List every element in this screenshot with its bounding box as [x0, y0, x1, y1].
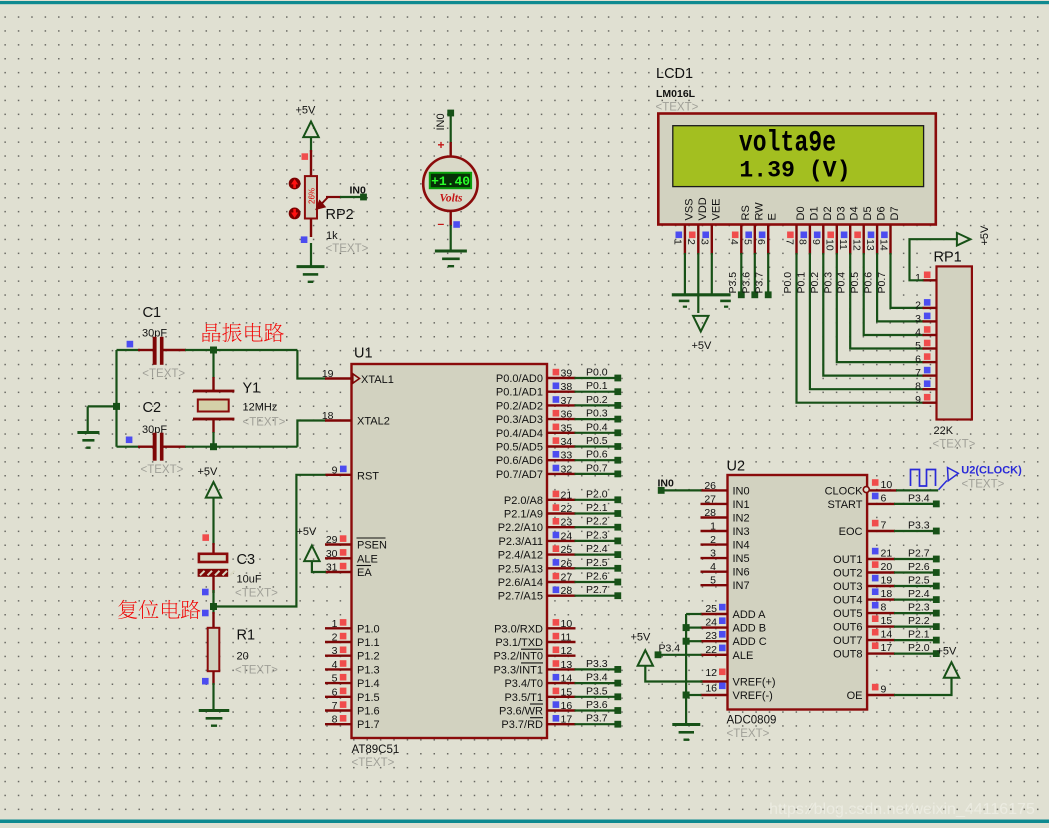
svg-text:P3.5/T1: P3.5/T1: [504, 692, 543, 704]
U2 pin 8 stub: [867, 612, 895, 614]
terminal net P3.4: [933, 501, 940, 508]
svg-text:Y1: Y1: [243, 381, 261, 397]
pin C1 left: [138, 349, 154, 351]
svg-text:20: 20: [881, 561, 893, 573]
U1 pin 28 state square: [553, 587, 560, 594]
RP1 pin 9 state square: [924, 394, 931, 401]
U1 pin EA overline: [357, 565, 372, 567]
U1 pin 29 stub: [325, 543, 352, 545]
svg-text:26%: 26%: [308, 188, 317, 204]
pin C3 top: [212, 543, 214, 554]
U2 pin 7 stub: [867, 530, 895, 532]
svg-text:volta9e: volta9e: [739, 126, 836, 159]
wire OUT1 net: [894, 558, 933, 560]
U1 pin 2 state square: [340, 633, 347, 640]
svg-text:19: 19: [881, 575, 893, 587]
junction ADD B: [683, 624, 690, 631]
U1 pin 4 state square: [340, 660, 347, 667]
svg-text:ALE: ALE: [733, 650, 754, 662]
U1 pin 26 stub: [547, 567, 576, 569]
svg-text:P3.1/TXD: P3.1/TXD: [495, 637, 543, 649]
voltmeter body: [423, 157, 477, 211]
svg-text:P2.3: P2.3: [586, 529, 608, 541]
wire +5V to C3: [212, 498, 214, 546]
IC U1 AT89C51 body: [352, 364, 548, 738]
U2 pin 23 stub: [701, 640, 728, 642]
svg-text:P0.0/AD0: P0.0/AD0: [496, 373, 543, 385]
svg-text:15: 15: [561, 686, 573, 698]
svg-text:P1.6: P1.6: [357, 706, 380, 718]
svg-text:36: 36: [561, 409, 573, 421]
svg-text:P3.5: P3.5: [586, 685, 608, 697]
wire OUT7 net: [894, 639, 933, 641]
svg-text:7: 7: [783, 239, 795, 245]
terminal net P3.5: [614, 693, 621, 700]
wire net P3.7: [575, 723, 618, 725]
svg-text:1: 1: [915, 272, 921, 284]
svg-text:25: 25: [561, 544, 573, 556]
wire OUT6 net: [894, 625, 933, 627]
U2 pin 14 state square: [872, 629, 879, 636]
U2 pin 25 state square: [719, 604, 726, 611]
svg-text:6: 6: [915, 354, 921, 366]
resistor R1 body: [208, 628, 220, 671]
LCD1 pin 12 stub: [863, 225, 865, 255]
svg-text:10: 10: [561, 618, 573, 630]
svg-text:<TEXT>: <TEXT>: [326, 243, 369, 255]
svg-text:38: 38: [561, 381, 573, 393]
U1 pin 11 stub: [547, 641, 576, 643]
U1 pin 33 state square: [553, 451, 560, 458]
U2 pin 19 stub: [867, 585, 895, 587]
U1 pin 23 stub: [547, 526, 576, 528]
U1 pin 1 stub: [325, 627, 352, 629]
svg-text:35: 35: [561, 422, 573, 434]
svg-text:16: 16: [561, 700, 573, 712]
svg-text:P2.0/A8: P2.0/A8: [504, 495, 543, 507]
U2 CLOCK bubble: [863, 487, 869, 493]
terminal IN0 at voltmeter: [447, 110, 454, 117]
RP1 pin 6 stub: [923, 361, 937, 363]
svg-text:3: 3: [915, 313, 921, 325]
terminal net P2.1: [614, 510, 621, 517]
wire +5V to RP2: [310, 137, 312, 152]
svg-text:<TEXT>: <TEXT>: [141, 464, 184, 476]
terminal net P2.0: [933, 650, 940, 657]
svg-text:P0.1/AD1: P0.1/AD1: [496, 387, 543, 399]
terminal net P2.2: [614, 524, 621, 531]
U1 pin 16 stub: [547, 709, 576, 711]
wire net P0.1: [575, 391, 618, 393]
terminal net P0.5: [614, 443, 621, 450]
svg-text:D5: D5: [862, 206, 874, 220]
U1 pin 24 stub: [547, 540, 576, 542]
annotation crystal circuit (red): [202, 323, 283, 342]
svg-text:15: 15: [881, 615, 893, 627]
svg-text:1k: 1k: [326, 230, 338, 242]
wire D3 to RP1: [837, 253, 924, 362]
svg-text:<TEXT>: <TEXT>: [933, 439, 976, 451]
U1 pin 17 state square: [553, 715, 560, 722]
U2 pin 8 state square: [872, 602, 879, 609]
wire +5V to EA: [312, 561, 326, 572]
wire C3 to junction: [212, 590, 214, 607]
svg-text:OUT6: OUT6: [833, 622, 862, 634]
U1 pin 27 state square: [553, 573, 560, 580]
svg-text:P2.6: P2.6: [908, 561, 930, 573]
LCD1 pin 13 stub: [876, 225, 878, 255]
svg-text:ADC0809: ADC0809: [727, 715, 777, 727]
U1 pin 33 stub: [547, 459, 576, 461]
svg-text:4: 4: [728, 239, 740, 245]
svg-text:OUT4: OUT4: [833, 595, 862, 607]
U1 pin 11 state square: [553, 633, 560, 640]
LCD1 pin 4 state square: [732, 232, 739, 239]
wire P3.7 net: [767, 253, 769, 295]
wire C2 to XTAL2 branch: [185, 446, 297, 448]
svg-text:RP2: RP2: [326, 207, 354, 223]
U1 pin 32 stub: [547, 473, 576, 475]
svg-text:P3.3/INT1: P3.3/INT1: [493, 664, 543, 676]
U1 pin 5 stub: [325, 682, 352, 684]
U2 pin 26 stub: [701, 489, 728, 491]
U1 pin 6 state square: [340, 688, 347, 695]
svg-text:4: 4: [332, 659, 338, 671]
wire net P2.6: [575, 581, 618, 583]
wire net P2.1: [575, 512, 618, 514]
svg-text:<TEXT>: <TEXT>: [352, 757, 395, 769]
svg-text:P3.4: P3.4: [908, 492, 930, 504]
svg-text:3: 3: [710, 548, 716, 560]
capacitor C1 plates: [153, 337, 164, 365]
svg-text:VSS: VSS: [683, 198, 695, 220]
svg-text:E: E: [767, 213, 779, 220]
wire net P2.0: [575, 499, 618, 501]
LCD1 pin 6 stub: [767, 225, 769, 255]
wire to XTAL1: [297, 350, 326, 379]
RP1 pin 3 stub: [923, 320, 937, 322]
LCD1 pin 3 state square: [702, 232, 709, 239]
U2 pin 17 stub: [867, 652, 895, 654]
annotation reset circuit (red): [118, 600, 200, 619]
svg-text:11: 11: [837, 239, 849, 250]
pin C3 bottom: [212, 577, 214, 594]
wire D7 to RP1: [891, 253, 924, 308]
U1 pin 14 stub: [547, 682, 576, 684]
RP1 pin 2 stub: [923, 307, 937, 309]
LCD1 pin 1 state square: [676, 232, 683, 239]
wire net P2.4: [575, 553, 618, 555]
crystal Y1 top lead: [212, 350, 214, 391]
wire net P3.4: [575, 682, 618, 684]
generator U2(CLOCK) waveform: [911, 470, 936, 487]
U2 pin 5 stub: [701, 584, 728, 586]
svg-text:LCD1: LCD1: [656, 66, 693, 82]
terminal net P2.4: [614, 551, 621, 558]
LCD1 pin 11 state square: [841, 232, 848, 239]
U2 pin 21 state square: [872, 548, 879, 555]
svg-text:IN0: IN0: [350, 185, 367, 197]
svg-text:21: 21: [561, 489, 573, 501]
wire net P2.3: [575, 540, 618, 542]
svg-text:U2(CLOCK): U2(CLOCK): [961, 465, 1022, 477]
svg-text:P0.2: P0.2: [809, 272, 821, 294]
pin voltmeter +: [450, 142, 452, 157]
U1 pin 26 state square: [553, 559, 560, 566]
U2 pin 7 state square: [872, 520, 879, 527]
U2 pin 18 stub: [867, 598, 895, 600]
power +5V arrow C3: [206, 482, 221, 498]
svg-text:XTAL1: XTAL1: [361, 374, 394, 386]
svg-text:D7: D7: [889, 206, 901, 220]
wire VSS to ground: [684, 253, 686, 295]
svg-text:2: 2: [915, 299, 921, 311]
ground dash right: [720, 300, 731, 303]
svg-text:ALE: ALE: [357, 553, 378, 565]
U2 pin 16 state square: [719, 683, 726, 690]
RP1 pin 4 state square: [924, 326, 931, 333]
svg-text:1: 1: [332, 618, 338, 630]
capacitor C2 plates: [153, 433, 164, 461]
RP2 decrement button: [289, 208, 301, 220]
U1 pin 5 state square: [340, 674, 347, 681]
U1 pin 14 state square: [553, 674, 560, 681]
LCD1 pin 9 state square: [814, 232, 821, 239]
svg-text:IN4: IN4: [733, 540, 750, 552]
svg-text:ADD B: ADD B: [733, 623, 767, 635]
svg-text:IN0: IN0: [733, 485, 750, 497]
U1 P3.3/INT1 overline: [521, 662, 543, 664]
U1 XTAL1 clock arrow: [353, 374, 360, 383]
U1 pin 17 stub: [547, 723, 576, 725]
svg-text:5: 5: [710, 575, 716, 587]
svg-text:P0.4/AD4: P0.4/AD4: [496, 428, 543, 440]
U1 pin 36 stub: [547, 418, 576, 420]
wire OE to +5V: [894, 678, 952, 695]
svg-text:EA: EA: [357, 567, 372, 579]
svg-text:P2.2: P2.2: [908, 615, 930, 627]
crystal Y1 top electrode: [193, 390, 234, 393]
wire net P0.2: [575, 404, 618, 406]
svg-text:7: 7: [332, 700, 338, 712]
svg-text:4: 4: [915, 327, 921, 339]
wire to XTAL2: [297, 421, 326, 447]
svg-text:P2.3/A11: P2.3/A11: [499, 536, 543, 548]
U2 pin 25 stub: [701, 613, 728, 615]
generator U2(CLOCK) flag: [939, 468, 959, 490]
U2 pin 23 state square: [719, 631, 726, 638]
U1 pin 25 state square: [553, 545, 560, 552]
svg-text:P1.1: P1.1: [357, 637, 380, 649]
U2 pin 3 stub: [701, 557, 728, 559]
svg-text:RW: RW: [753, 202, 765, 221]
wire left bus vertical: [115, 350, 117, 447]
svg-text:31: 31: [326, 562, 338, 574]
svg-text:23: 23: [561, 517, 573, 529]
svg-text:R1: R1: [237, 628, 256, 644]
wire junction to R1: [212, 607, 214, 615]
terminal net P3.4: [614, 680, 621, 687]
LCD1 pin 10 stub: [836, 225, 838, 255]
wire OUT2 net: [894, 571, 933, 573]
U1 pin 22 state square: [553, 504, 560, 511]
terminal net P2.3: [933, 610, 940, 617]
svg-text:Volts: Volts: [439, 193, 463, 205]
svg-text:P2.2/A10: P2.2/A10: [498, 522, 543, 534]
wire ADD B: [686, 626, 701, 628]
svg-text:P0.0: P0.0: [782, 272, 794, 294]
U2 pin 20 stub: [867, 571, 895, 573]
svg-text:2: 2: [332, 632, 338, 644]
IC U2 ADC0809 body: [728, 475, 868, 710]
svg-text:22K: 22K: [934, 425, 954, 437]
U2 pin 6 state square: [872, 493, 879, 500]
U1 pin 22 stub: [547, 512, 576, 514]
U2 pin 22 state square: [719, 645, 726, 652]
svg-text:P0.7: P0.7: [876, 272, 888, 294]
svg-text:24: 24: [561, 530, 573, 542]
wire VDD down: [697, 253, 699, 313]
resistor RP2 body: [305, 176, 317, 218]
svg-text:IN6: IN6: [733, 567, 750, 579]
svg-text:P0.3/AD3: P0.3/AD3: [496, 414, 543, 426]
U2 pin 27 stub: [701, 503, 728, 505]
U2 pin 4 stub: [701, 571, 728, 573]
svg-text:RS: RS: [740, 205, 752, 220]
U1 pin 7 state square: [340, 701, 347, 708]
LCD1 pin 6 state square: [759, 232, 766, 239]
svg-text:P0.5/AD5: P0.5/AD5: [496, 442, 543, 454]
svg-text:RP1: RP1: [934, 250, 962, 266]
U1 pin 38 stub: [547, 391, 576, 393]
svg-text:ADD A: ADD A: [733, 609, 767, 621]
wire reset to RST: [214, 475, 327, 607]
RP1 pin 9 stub: [923, 402, 937, 404]
logic square C2: [126, 437, 133, 444]
U1 pin 9 state square: [340, 466, 347, 473]
LCD1 pin 5 stub: [754, 225, 756, 255]
svg-text:3: 3: [332, 645, 338, 657]
junction VREF-: [683, 692, 690, 699]
svg-text:D0: D0: [795, 206, 807, 220]
wire net P3.6: [575, 709, 618, 711]
U1 pin 6 stub: [325, 696, 352, 698]
wire D5 to RP1: [864, 253, 924, 335]
svg-text:28: 28: [561, 585, 573, 597]
svg-text:<TEXT>: <TEXT>: [243, 417, 286, 429]
terminal net P2.6: [933, 569, 940, 576]
svg-text:P0.7/AD7: P0.7/AD7: [496, 469, 543, 481]
ground crystal: [77, 433, 99, 448]
wire D1 to RP1: [810, 253, 924, 389]
RP1 pin 1 state square: [924, 272, 931, 279]
svg-text:P2.1: P2.1: [908, 629, 930, 641]
LCD1 pin 4 stub: [740, 225, 742, 255]
U1 pin 24 state square: [553, 532, 560, 539]
svg-text:3: 3: [699, 239, 711, 245]
U1 pin 3 stub: [325, 655, 352, 657]
crystal Y1 bottom electrode: [193, 418, 234, 421]
pin C2 right: [164, 446, 187, 448]
svg-text:18: 18: [881, 588, 893, 600]
U1 pin 39 state square: [553, 369, 560, 376]
wire ALE net P3.4: [661, 654, 702, 656]
wire bus to C2: [117, 446, 141, 448]
svg-text:+5V: +5V: [198, 466, 219, 478]
wire net P3.5: [575, 696, 618, 698]
svg-text:P3.0/RXD: P3.0/RXD: [494, 623, 543, 635]
power +5V arrow RP1 (right): [957, 233, 971, 246]
terminal IN0 at U2: [658, 487, 665, 494]
U1 pin 29 state square: [340, 535, 347, 542]
svg-text:4: 4: [710, 561, 716, 573]
svg-text:+5V: +5V: [692, 340, 713, 352]
svg-text:37: 37: [561, 395, 573, 407]
wire net P2.7: [575, 595, 618, 597]
svg-text:IN7: IN7: [733, 580, 750, 592]
svg-text:P2.4: P2.4: [586, 543, 608, 555]
wire ADD A: [686, 613, 701, 615]
RP1 pin 5 state square: [924, 340, 931, 347]
terminal net P2.6: [614, 579, 621, 586]
svg-text:10uF: 10uF: [237, 574, 262, 586]
U1 pin 7 stub: [325, 709, 352, 711]
U1 pin 39 stub: [547, 377, 576, 379]
ground RP2: [297, 267, 325, 282]
RP2 increment button: [289, 178, 301, 190]
U2 pin 22 stub: [701, 654, 728, 656]
U1 pin 15 stub: [547, 696, 576, 698]
U1 pin 2 stub: [325, 641, 352, 643]
wire crystal ground drop: [87, 406, 89, 431]
svg-text:28: 28: [704, 507, 716, 519]
wire C1 to XTAL1 branch: [185, 349, 297, 351]
ground dash left: [679, 300, 690, 303]
junction crystal bottom: [210, 443, 217, 450]
svg-text:+1.40: +1.40: [431, 174, 470, 189]
svg-text:8: 8: [915, 381, 921, 393]
svg-text:8: 8: [881, 602, 887, 614]
svg-text:12: 12: [851, 239, 863, 251]
svg-text:XTAL2: XTAL2: [357, 416, 390, 428]
svg-text:14: 14: [881, 629, 893, 641]
svg-text:P3.6: P3.6: [586, 699, 608, 711]
svg-text:P0.7: P0.7: [586, 462, 608, 474]
LCD1 pin 2 stub: [697, 225, 699, 255]
svg-text:P2.7: P2.7: [586, 584, 608, 596]
svg-text:P3.4: P3.4: [586, 672, 608, 684]
terminal net P2.4: [933, 596, 940, 603]
LCD1 pin 9 stub: [822, 225, 824, 255]
svg-text:P0.6/AD6: P0.6/AD6: [496, 455, 543, 467]
wire OUT8 net: [894, 652, 933, 654]
junction reset node: [210, 603, 217, 610]
svg-text:20: 20: [237, 651, 249, 663]
terminal net P0.2: [614, 402, 621, 409]
pin C2 left: [138, 446, 154, 448]
svg-text:P0.6: P0.6: [863, 272, 875, 294]
terminal net P3.4 at U2: [655, 651, 662, 658]
RP1 pin 7 state square: [924, 367, 931, 374]
wire net P0.3: [575, 418, 618, 420]
U2 pin 24 stub: [701, 626, 728, 628]
RP1 pin 7 stub: [923, 374, 937, 376]
terminal net P3.3: [933, 528, 940, 535]
U2 pin 28 stub: [701, 516, 728, 518]
U2 pin 15 stub: [867, 625, 895, 627]
U1 pin 30 stub: [325, 557, 352, 559]
svg-text:VREF(+): VREF(+): [733, 677, 776, 689]
